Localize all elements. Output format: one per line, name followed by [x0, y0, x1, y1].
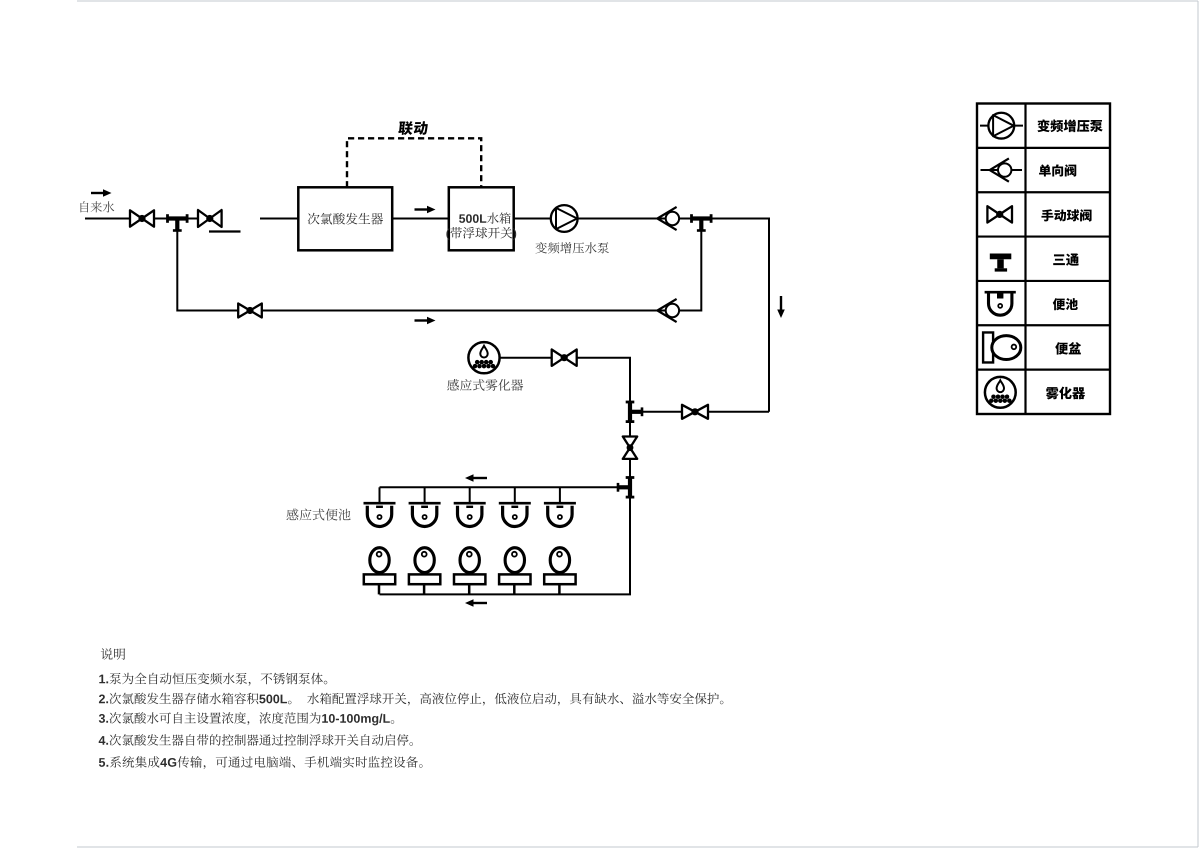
legend table grid	[977, 104, 1110, 415]
flow arrow: top manifold (left)	[465, 474, 487, 482]
tee T2	[692, 214, 712, 230]
check valve CV1	[657, 207, 679, 230]
note line 2	[99, 693, 723, 706]
tee T4 (branch left to manifold)	[618, 478, 634, 498]
label: tank box line2 (带浮球开关)	[446, 227, 516, 240]
label: tank box line1 (500L水箱)	[459, 212, 511, 223]
note line 4	[99, 734, 413, 746]
urinal U3	[454, 503, 486, 526]
legend symbol: pump	[980, 113, 1023, 139]
urinal U4	[499, 503, 531, 526]
flow arrow: generator to tank	[415, 206, 436, 214]
note line 3	[99, 712, 394, 725]
legend symbol: check valve	[981, 158, 1023, 181]
tee T1	[168, 214, 188, 230]
legend label: 单向阀	[1039, 164, 1076, 176]
valve V2 (manual ball valve)	[198, 210, 222, 227]
valve V6 (manual ball valve, riser, vertical)	[623, 437, 637, 459]
pipe: top urinal manifold	[380, 486, 619, 488]
label: generator box (次氯酸发生器)	[308, 213, 383, 225]
notes heading (说明)	[101, 648, 125, 660]
flow arrow: down right riser	[777, 296, 785, 318]
label: interlock (联动)	[398, 121, 428, 135]
box: hypochlorous acid generator	[298, 187, 392, 250]
tee T3 (branch right)	[626, 402, 642, 422]
legend symbol: atomizer	[985, 377, 1016, 408]
pipe: generator to tank	[392, 218, 449, 220]
toilet W1	[364, 548, 395, 595]
legend symbol: tee	[990, 256, 1012, 270]
note line 5	[99, 756, 423, 769]
check valve CV2 (return line)	[657, 299, 679, 322]
flow arrow: return line	[415, 317, 436, 325]
valve V5 (manual ball valve, branch)	[682, 405, 708, 419]
toilet W4	[499, 548, 530, 595]
note line 1	[99, 673, 327, 686]
pipe: return loop (tee T1 down, across, up to tee T2)	[177, 231, 701, 311]
urinal U1	[364, 503, 396, 526]
label: sensor atomizer (感应式雾化器)	[447, 379, 523, 391]
label: booster pump (变频增压水泵)	[535, 242, 608, 254]
pipe: tee T3 branch to right riser	[641, 411, 769, 413]
valve V3 (manual ball valve, return line)	[238, 304, 262, 318]
toilet W2	[409, 548, 440, 595]
toilet W3	[454, 548, 485, 595]
toilet W5	[544, 548, 575, 595]
legend label: 变频增压泵	[1037, 119, 1102, 132]
flow arrow: bottom manifold (left)	[465, 599, 487, 607]
label: tap water (自来水)	[80, 201, 114, 212]
legend symbol: manual ball valve	[987, 206, 1012, 222]
label: sensor urinals (感应式便池)	[287, 508, 351, 520]
pipe: tee T2 to right riser down	[711, 219, 769, 412]
valve V2 handle mark	[209, 230, 241, 232]
pipe: tank to pump to tee T2	[514, 218, 692, 220]
pipe: atomizer branch / main riser / bottom manifold	[380, 358, 631, 595]
urinal U5	[544, 503, 576, 526]
pump P1 (variable frequency booster pump)	[551, 205, 578, 232]
valve V4 (manual ball valve, atomizer line)	[552, 350, 577, 366]
pipe: between tee T1 and valve V2	[186, 218, 222, 220]
urinal U2	[409, 503, 441, 526]
legend symbol: toilet	[983, 332, 1021, 362]
interlock dashed link (generator-tank)	[347, 138, 481, 187]
legend label: 三通	[1053, 253, 1079, 265]
pipe: into generator box	[260, 218, 298, 220]
legend label: 便盆	[1055, 342, 1081, 355]
valve V1 (manual ball valve)	[130, 210, 154, 226]
legend label: 手动球阀	[1041, 209, 1091, 221]
atomizer A1 (sensor atomizer)	[468, 342, 499, 373]
legend symbol: urinal	[985, 292, 1016, 315]
legend label: 便池	[1053, 298, 1078, 310]
pipe: urinal drop stubs	[380, 487, 560, 502]
box: 500L water tank	[449, 187, 514, 250]
legend label: 雾化器	[1046, 387, 1085, 400]
pipe: tap water inlet	[85, 218, 167, 220]
flow arrow: tap water in	[91, 189, 112, 197]
